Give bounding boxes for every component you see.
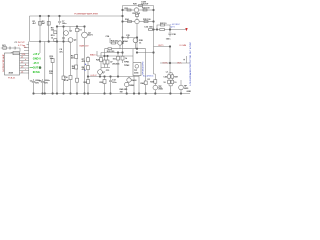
svg-text:R28 100: R28 100 bbox=[107, 51, 115, 53]
svg-text:R35 100: R35 100 bbox=[143, 19, 151, 21]
svg-text:MODUL PRE AMP: MODUL PRE AMP bbox=[2, 54, 5, 72]
svg-text:+ 42 VDC: + 42 VDC bbox=[170, 24, 180, 26]
svg-text:4k7: 4k7 bbox=[33, 22, 37, 25]
wire y52 bbox=[101, 52, 123, 54]
capacitor C2 bbox=[62, 27, 65, 42]
svg-text:+15 V: +15 V bbox=[33, 52, 40, 56]
wire y52 right bbox=[137, 52, 154, 54]
svg-text:A671: A671 bbox=[88, 34, 94, 37]
svg-text:1k: 1k bbox=[125, 58, 128, 60]
resistor R2 bbox=[48, 16, 50, 42]
svg-text:C35: C35 bbox=[126, 35, 131, 37]
svg-text:R37 10: R37 10 bbox=[160, 23, 167, 25]
IC U1 bbox=[5, 53, 20, 75]
svg-text:GND: GND bbox=[187, 91, 192, 93]
resistor R37 bbox=[110, 38, 118, 43]
wire mid horizontal bbox=[105, 48, 146, 50]
resistor R10 bbox=[108, 48, 112, 50]
wire input bus bbox=[28, 42, 30, 80]
wire bottom rail bbox=[34, 93, 191, 95]
transistor Q10 bbox=[127, 78, 131, 82]
svg-text:IN PUT: IN PUT bbox=[18, 42, 26, 44]
svg-text:OUT-: OUT- bbox=[177, 63, 182, 65]
wire stub below bus bbox=[39, 42, 41, 54]
svg-text:o1: o1 bbox=[21, 57, 24, 59]
svg-text:1W: 1W bbox=[120, 92, 123, 94]
wire vas drop bbox=[136, 24, 138, 49]
green arrow bbox=[30, 67, 34, 69]
svg-text:C34: C34 bbox=[106, 35, 111, 38]
transistor Q6 bbox=[118, 41, 122, 45]
resistor R17 bbox=[145, 77, 147, 94]
svg-text:8 OHM: 8 OHM bbox=[180, 45, 187, 47]
wire bias bbox=[101, 67, 110, 69]
svg-text:R32 2k2: R32 2k2 bbox=[133, 13, 141, 15]
wire v88 bbox=[87, 56, 89, 77]
wire sub rail bbox=[57, 26, 85, 28]
wire y56 bbox=[97, 51, 133, 56]
resistor R18 bbox=[154, 74, 156, 80]
resistor R32 bbox=[139, 9, 154, 11]
svg-text:470: 470 bbox=[82, 60, 86, 63]
svg-text:BIAS 1: BIAS 1 bbox=[90, 53, 97, 56]
resistor R14 bbox=[87, 77, 89, 94]
svg-text:R47: R47 bbox=[174, 76, 179, 79]
wire out branch bbox=[154, 47, 171, 73]
svg-text:-15 V: -15 V bbox=[33, 61, 39, 65]
capacitor C6 bbox=[123, 36, 134, 39]
resistor R35 bbox=[149, 29, 153, 31]
svg-text:47u: 47u bbox=[59, 50, 63, 53]
svg-text:R33 100: R33 100 bbox=[142, 8, 150, 10]
svg-text:50V: 50V bbox=[35, 83, 39, 85]
svg-text:POWERAMP AMPLIFIER: POWERAMP AMPLIFIER bbox=[74, 13, 98, 16]
wire v118 bbox=[117, 53, 119, 77]
svg-text:a: a bbox=[25, 59, 27, 61]
svg-text:C11: C11 bbox=[106, 70, 110, 72]
svg-text:C40: C40 bbox=[163, 76, 168, 79]
resistor R7 bbox=[87, 66, 90, 70]
svg-text:TIP3055 NPN: TIP3055 NPN bbox=[143, 61, 145, 75]
svg-text:10k: 10k bbox=[113, 59, 117, 61]
resistor R9 bbox=[69, 76, 72, 80]
resistor on rail bottom bbox=[121, 56, 124, 60]
svg-text:100n: 100n bbox=[62, 23, 67, 25]
transistor Q9 bbox=[179, 85, 184, 90]
svg-text:OUT1: OUT1 bbox=[158, 45, 164, 47]
capacitor C8 bbox=[32, 79, 36, 94]
svg-text:R36 2k2: R36 2k2 bbox=[111, 40, 119, 42]
transistor Q2 bbox=[68, 38, 73, 43]
resistor R13 bbox=[107, 56, 109, 60]
wire lower bus bbox=[88, 76, 139, 78]
resistor R6 bbox=[87, 58, 90, 62]
resistor R36b main bbox=[160, 28, 165, 30]
resistor R3 bbox=[56, 27, 58, 42]
capacitor C5 bbox=[168, 30, 171, 37]
resistor R31 bbox=[123, 9, 135, 11]
resistor R16 bbox=[168, 80, 171, 83]
power device U2 bbox=[133, 63, 141, 76]
svg-text:10: 10 bbox=[163, 82, 166, 84]
transistor Q11 bbox=[125, 82, 129, 86]
svg-text:33k: 33k bbox=[51, 30, 55, 32]
resistor R15 bbox=[104, 77, 106, 94]
svg-text:3055: 3055 bbox=[134, 72, 139, 74]
resistor R1 bbox=[39, 16, 41, 42]
svg-text:42 V: 42 V bbox=[170, 27, 175, 29]
svg-text:D1: D1 bbox=[148, 79, 151, 81]
svg-text:50V: 50V bbox=[44, 83, 48, 85]
inductor L1 bbox=[169, 72, 172, 75]
resistor R8 vertical bbox=[52, 59, 54, 94]
wire left drop bbox=[29, 16, 31, 42]
wire long vertical bbox=[44, 42, 46, 94]
svg-text:C9: C9 bbox=[79, 30, 82, 32]
wire right vertical rail bbox=[122, 6, 124, 57]
svg-text:4k7: 4k7 bbox=[42, 22, 46, 25]
transistor Q8 bbox=[98, 70, 103, 75]
svg-text:C10: C10 bbox=[64, 77, 69, 79]
svg-text:LOUDSPEAKER PROTECTOR OUT 42VD: LOUDSPEAKER PROTECTOR OUT 42VDC bbox=[189, 42, 192, 86]
svg-text:R29: R29 bbox=[133, 3, 138, 5]
transistor Q5 bbox=[123, 21, 135, 23]
capacitor C3 bbox=[76, 27, 78, 94]
transistor Q7 bbox=[133, 38, 138, 43]
potentiometer VR1 bbox=[13, 52, 19, 55]
resistor R34 bbox=[139, 21, 153, 23]
svg-text:L1: L1 bbox=[166, 72, 169, 74]
svg-text:A564: A564 bbox=[123, 40, 129, 43]
svg-text:10k/1W: 10k/1W bbox=[141, 3, 148, 5]
wire v57 lower bbox=[56, 42, 58, 94]
resistor R11 bbox=[100, 58, 103, 62]
svg-text:100n: 100n bbox=[149, 27, 154, 29]
svg-text:0,45 V: 0,45 V bbox=[91, 75, 98, 77]
svg-text:o2: o2 bbox=[21, 62, 24, 64]
resistor R3b bbox=[54, 39, 57, 42]
svg-text:C38: C38 bbox=[172, 34, 177, 36]
svg-text:TIP41: TIP41 bbox=[124, 61, 130, 64]
junction dots bbox=[39, 15, 40, 16]
svg-text:10: 10 bbox=[174, 82, 177, 84]
svg-text:1k: 1k bbox=[139, 43, 142, 45]
capacitor C1 bbox=[58, 16, 61, 25]
wire v153 bbox=[154, 30, 156, 75]
svg-text:2SC945: 2SC945 bbox=[112, 63, 120, 66]
transistor Q1 bbox=[64, 31, 69, 36]
speaker terminal bbox=[186, 56, 188, 63]
svg-text:b: b bbox=[25, 64, 27, 66]
resistor R30 bbox=[139, 5, 143, 7]
svg-text:Q2: Q2 bbox=[74, 40, 78, 42]
wire out rail bbox=[160, 62, 190, 64]
transistor Q4 bbox=[134, 8, 138, 12]
wire drop bbox=[104, 49, 106, 56]
resistor R36 bypass bbox=[157, 25, 170, 30]
svg-text:47uF: 47uF bbox=[64, 79, 69, 82]
svg-text:IN SG: IN SG bbox=[33, 70, 40, 74]
input coupling bbox=[3, 47, 7, 50]
svg-text:+: + bbox=[184, 59, 186, 61]
svg-text:OUT+: OUT+ bbox=[163, 63, 169, 65]
svg-text:3055: 3055 bbox=[184, 88, 189, 90]
svg-text:TIP42: TIP42 bbox=[124, 64, 130, 67]
red arrow terminal bbox=[185, 28, 187, 31]
svg-text:2955: 2955 bbox=[158, 88, 163, 90]
svg-text:BIAS 1V2: BIAS 1V2 bbox=[80, 44, 90, 47]
wire top rail bbox=[30, 15, 123, 17]
svg-text:PCB-01: PCB-01 bbox=[8, 78, 16, 80]
capacitor C9 bbox=[41, 79, 45, 94]
resistor R4 bbox=[75, 55, 78, 59]
svg-text:B: B bbox=[84, 70, 86, 72]
wire top branch bbox=[123, 5, 154, 7]
capacitor C7 bbox=[109, 77, 112, 94]
capacitor C4 bbox=[63, 42, 65, 94]
resistor R5b bbox=[76, 78, 79, 82]
svg-text:B+ 42VDC: B+ 42VDC bbox=[143, 75, 154, 77]
resistor R12 bbox=[104, 56, 106, 60]
svg-text:100u: 100u bbox=[112, 82, 117, 84]
wire branch drop bbox=[153, 6, 155, 30]
svg-text:1k: 1k bbox=[51, 37, 54, 39]
svg-text:D438: D438 bbox=[132, 79, 138, 82]
svg-text:c: c bbox=[25, 69, 26, 71]
svg-text:o4: o4 bbox=[21, 72, 24, 74]
wire feed bbox=[148, 29, 187, 31]
svg-text:100n: 100n bbox=[166, 39, 171, 41]
svg-text:4558: 4558 bbox=[9, 71, 14, 74]
wire v146 bbox=[145, 49, 147, 77]
svg-text:Q7: Q7 bbox=[102, 72, 106, 74]
svg-text:o3: o3 bbox=[21, 67, 24, 69]
transistor Q8 riser bbox=[100, 53, 102, 70]
svg-text:GND 0: GND 0 bbox=[33, 56, 41, 60]
wire mid bus bbox=[30, 41, 71, 43]
svg-text:Q1: Q1 bbox=[69, 31, 73, 33]
transistor Q12 bbox=[153, 85, 158, 90]
resistor R5 bbox=[75, 65, 78, 69]
IC pins bbox=[20, 56, 29, 74]
transistor Q3 bbox=[82, 32, 88, 38]
wire device drop bbox=[133, 49, 139, 94]
svg-text:OUT S: OUT S bbox=[33, 65, 41, 69]
resistor R33 riser bbox=[135, 14, 138, 16]
